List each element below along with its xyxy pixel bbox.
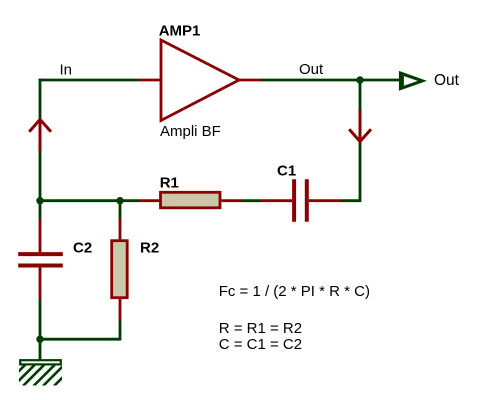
svg-text:C1: C1 <box>277 163 296 180</box>
amp input lead <box>140 79 161 82</box>
R1 right lead <box>222 199 242 202</box>
svg-text:AMP1: AMP1 <box>159 22 201 39</box>
op-amp AMP1 <box>161 40 239 121</box>
wire bottom horizontal <box>40 338 120 341</box>
capacitor C2 <box>18 254 63 265</box>
junction node A <box>36 197 43 204</box>
wire In horizontal <box>39 79 140 82</box>
svg-text:C2: C2 <box>73 239 92 256</box>
arrow down output branch <box>349 110 371 142</box>
wire R1 to C1 <box>242 199 261 202</box>
wire R2 to bottom horizontal <box>119 321 122 341</box>
wire left vertical lower <box>39 151 42 202</box>
C1 right lead <box>309 199 341 202</box>
wire left vertical upper <box>39 79 42 120</box>
resistor R1 <box>161 192 221 208</box>
amp output lead <box>239 79 261 82</box>
wire node A to node B <box>39 199 120 202</box>
wire C1 to right vertical <box>341 140 360 201</box>
svg-text:R2: R2 <box>140 240 159 257</box>
wire C2 to ground node <box>39 300 42 339</box>
wire node A down <box>39 201 42 220</box>
resistor R2 <box>112 241 128 298</box>
junction node B <box>116 197 123 204</box>
ground symbol <box>4 360 76 386</box>
R2 top lead <box>119 218 122 240</box>
capacitor C1 <box>294 179 307 221</box>
C2 bottom lead <box>39 267 42 301</box>
svg-text:Out: Out <box>299 61 324 78</box>
svg-text:In: In <box>60 62 73 79</box>
junction ground node <box>36 336 43 343</box>
wire node B to R1 <box>120 199 139 202</box>
svg-text:R1: R1 <box>160 175 179 192</box>
C1 left lead <box>260 199 292 202</box>
R2 bottom lead <box>119 299 122 321</box>
junction Out node <box>356 76 363 83</box>
svg-text:Fc = 1 / (2 * PI * R * C): Fc = 1 / (2 * PI * R * C) <box>219 283 370 300</box>
output terminal Out <box>399 71 427 91</box>
svg-text:Out: Out <box>434 72 460 89</box>
svg-text:C = C1 = C2: C = C1 = C2 <box>219 336 302 353</box>
arrow up feedback <box>29 119 51 152</box>
C2 top lead <box>39 219 42 253</box>
wire ground stub <box>39 339 42 360</box>
svg-text:Ampli BF: Ampli BF <box>160 123 221 140</box>
R1 left lead <box>139 199 161 202</box>
svg-text:R = R1 = R2: R = R1 = R2 <box>219 320 302 337</box>
wire node B down <box>119 201 122 219</box>
wire right vertical upper <box>359 80 362 110</box>
wire Out horizontal <box>261 79 400 82</box>
